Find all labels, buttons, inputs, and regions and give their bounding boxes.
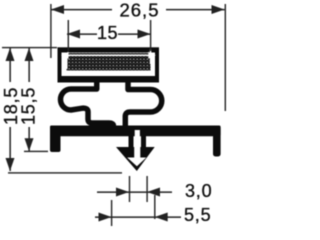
svg-text:15: 15 [97,23,118,43]
svg-text:5,5: 5,5 [184,205,211,225]
svg-text:15,5: 15,5 [19,87,39,125]
svg-text:3,0: 3,0 [185,181,212,201]
svg-text:26,5: 26,5 [119,0,159,21]
